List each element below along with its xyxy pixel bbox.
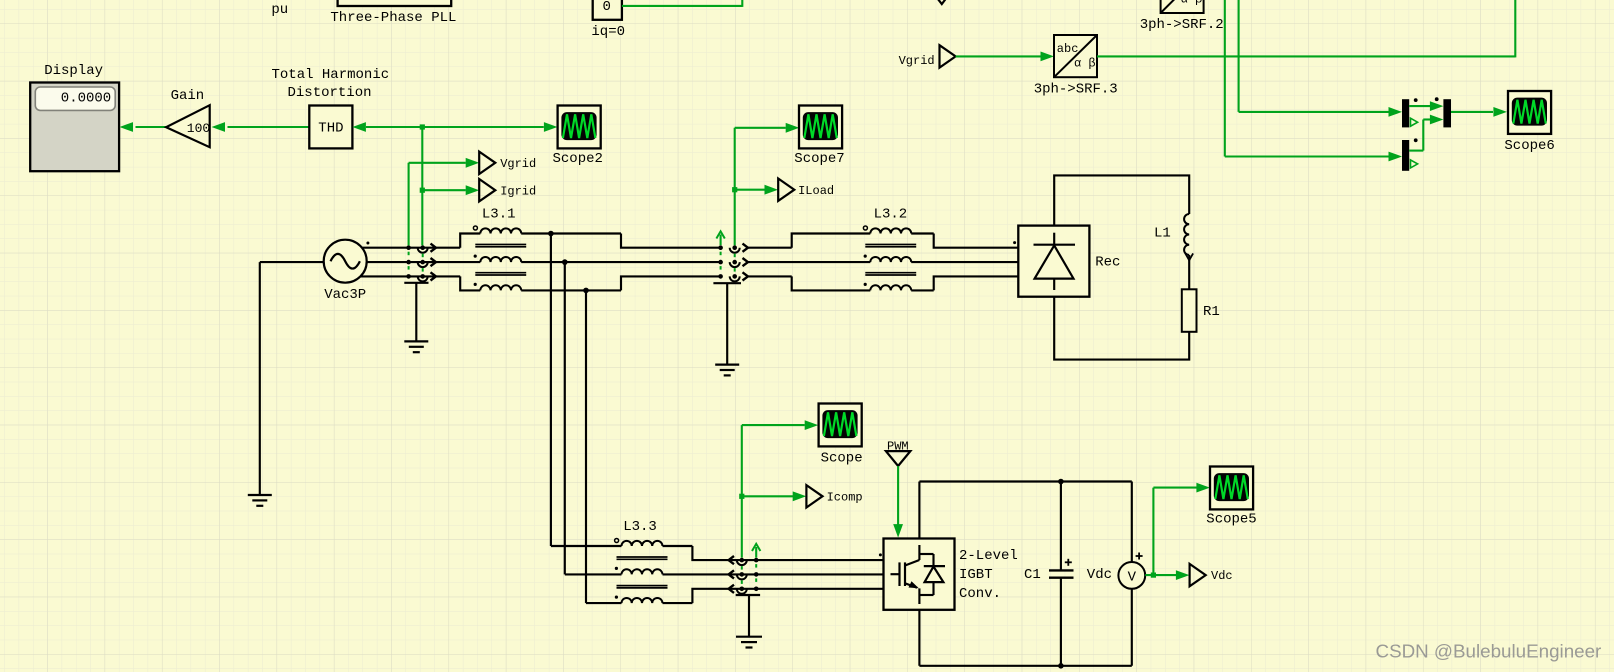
svg-text:CSDN @BulebuluEngineer: CSDN @BulebuluEngineer [1376,641,1602,662]
inductor L3.3 (three-phase) [615,519,668,603]
wire phase A: Vac3P to L3.1 [362,234,481,248]
wire L3.3 phase C to IGBT converter [663,589,884,603]
resistor R1 [1182,289,1220,332]
svg-text:iq=0: iq=0 [591,24,625,40]
svg-text:2-Level: 2-Level [959,548,1018,564]
wire Vac3P neutral to ground [260,262,324,495]
current sensors group 2 (x=734.7) [730,244,748,282]
mux M1 (upper-left bar) [1402,98,1418,127]
svg-text:R1: R1 [1203,304,1220,320]
wire junction to Igrid probe [424,185,479,195]
svg-text:V: V [1128,569,1137,585]
svg-text:L3.2: L3.2 [874,207,908,223]
wire phase B: sensors to L3.2 [748,261,870,263]
svg-text:Gain: Gain [171,88,205,104]
wire vertical from top edge to lower mux [1225,0,1402,161]
node DC+ / C1 [1058,479,1064,485]
probe PWM (link to converter gate) [886,440,911,467]
converter bottom pin [918,595,920,604]
display block Display (numeric readout 0.0000) [30,63,119,171]
wire dropper phase A to L3.3 [551,234,622,547]
wire junction up to Scope5 [1153,483,1210,575]
wire junction to THD [352,122,422,132]
probe Vgrid [479,152,536,174]
voltage taps group 1 (dots, x=408.6) [406,245,411,278]
wire phase A: L3.1 to sensor group 2 [521,234,721,248]
wire Gain to Display [120,122,167,132]
current sensors group 3 (x=741.8, arrows point left) [729,556,747,594]
wire mux M2 to Scope6 [1451,107,1507,117]
scope Scope2 [553,106,603,168]
svg-text:Vgrid: Vgrid [500,157,536,171]
wire dropper phase C to L3.3 [586,290,622,603]
svg-text:100: 100 [187,121,210,136]
wire Rec top to L1 [1054,175,1189,225]
wire phase C: L3.1 to sensor group 2 [521,276,721,290]
current sensors group 1 (x=422.7) [418,244,436,282]
svg-text:Vdc: Vdc [1087,567,1112,583]
svg-text:Vac3P: Vac3P [324,287,366,303]
svg-text:Icomp: Icomp [827,491,863,505]
block 3ph->SRF.3 (abc to alpha-beta) U3 [1034,35,1118,97]
scope Scope7 [794,106,844,168]
wire phase A: sensors to L3.2 [748,234,870,248]
probe Igrid [479,179,536,201]
svg-text:pu: pu [271,2,288,18]
scope Scope5 [1206,467,1256,528]
capacitor C1 [1024,482,1074,666]
svg-text:Rec: Rec [1095,255,1120,271]
wire L3.3 phase B to IGBT converter [663,573,884,575]
svg-text:Three-Phase PLL: Three-Phase PLL [330,10,456,26]
svg-text:Scope7: Scope7 [794,151,844,167]
svg-text:0: 0 [603,0,611,15]
wire phase B: Vac3P to L3.1 [367,261,481,263]
svg-text:Distortion: Distortion [288,85,372,101]
wire current sensor group 2 up to Scope7 [735,123,800,245]
wire dropper phase B to L3.3 [565,262,622,574]
wire L1 to R1 [1188,255,1190,289]
node DC- / C1 [1058,663,1064,669]
wire junction to ILoad probe [732,185,778,195]
svg-text:L3.1: L3.1 [482,207,516,223]
wire THD to Gain [212,122,310,132]
wire junction to Scope2 [420,122,558,132]
converter block 2-Level IGBT Conv. [879,539,1018,610]
wire THD junction down to Igrid and current sensors [420,127,425,245]
sensor reference bar + ground group 1 [404,283,428,352]
svg-text:Scope6: Scope6 [1504,138,1554,154]
wire phase B: L3.1 to sensor group 2 [521,261,721,263]
wire current sensor group 3 up to Scope [742,420,818,557]
mux M2 (right bar) [1435,97,1451,127]
node phase B tap [562,259,568,265]
svg-text:3ph->SRF.2: 3ph->SRF.2 [1140,17,1224,33]
wire from iq=0 block to top edge [622,0,742,7]
sensor reference bar + ground group 2 [713,283,741,375]
wire DC+ rail [919,482,1131,539]
svg-text:Scope2: Scope2 [553,151,603,167]
wire sensor column to Vgrid probe [409,158,480,246]
sensor reference bar + ground group 3 [736,595,762,648]
svg-text:α β: α β [1181,0,1203,6]
wire Vgrid to 3ph->SRF.3 [956,52,1054,62]
probe ILoad [778,179,834,201]
svg-text:ILoad: ILoad [798,184,834,198]
voltage taps group 3 (dots + up arrow stub) [752,544,760,591]
probe Vdc [1190,564,1233,586]
node phase C tap [583,288,589,294]
voltage taps group 2 (dots + up arrow stub) [716,231,724,278]
svg-text:Scope: Scope [821,451,863,467]
rectifier Rec (3-phase diode bridge block) [1013,226,1120,297]
probe PWM (partial triangle tip at top edge) [938,0,946,4]
wire phase C: Vac3P to L3.1 [360,276,480,290]
wire L3.3 phase A to IGBT converter [663,546,884,560]
ground (Vac3P neutral) [248,495,272,506]
svg-text:Total Harmonic: Total Harmonic [272,67,390,83]
scope Scope (bottom) [819,404,863,467]
svg-text:3ph->SRF.3: 3ph->SRF.3 [1034,81,1118,97]
wire phase C: sensors to L3.2 [748,276,870,290]
wire vertical from top edge to upper mux [1239,0,1402,117]
svg-text:Vdc: Vdc [1211,569,1233,583]
wire phase B: L3.2 to Rec [911,261,1018,263]
probe Vgrid (top right) [899,45,956,68]
svg-text:Conv.: Conv. [959,586,1001,602]
constant block iq=0 (value 0) [591,0,625,40]
wire mux M3 out to mux M2 [1409,115,1443,151]
svg-text:Igrid: Igrid [500,184,536,198]
svg-text:L1: L1 [1154,226,1171,242]
svg-text:C1: C1 [1024,567,1041,583]
wire phase C: L3.2 to Rec [911,276,1018,290]
inductor L3.2 (three-phase) [863,207,916,291]
svg-text:0.0000: 0.0000 [61,91,111,107]
wire phase A: L3.2 to Rec [911,234,1018,248]
svg-text:Display: Display [44,63,103,79]
watermark CSDN [1376,641,1602,662]
freewheeling diode inside converter [924,554,945,595]
block 3ph->SRF.2 (abc to alpha-beta, partial at top edge) [1140,0,1224,33]
wire mux M1 out to mux M2 [1409,101,1443,111]
inductor L1 [1154,214,1193,260]
svg-text:abc: abc [1057,42,1079,56]
probe Icomp [806,485,862,507]
source Vac3P (three-phase AC source) [324,240,370,303]
scope Scope6 [1504,91,1554,154]
label pu [271,2,288,18]
block THD (Total Harmonic Distortion) [272,67,390,148]
voltmeter Vdc [1087,482,1145,666]
svg-text:THD: THD [318,121,343,137]
IGBT symbol inside converter [891,545,934,595]
svg-text:Scope5: Scope5 [1206,512,1256,528]
node phase A tap [548,231,554,237]
wire DC- rail [919,610,1131,666]
wire PWM to converter [893,466,903,538]
svg-text:IGBT: IGBT [959,567,993,583]
svg-text:Vgrid: Vgrid [899,54,935,68]
svg-text:α β: α β [1074,57,1096,71]
wire 3ph->SRF.3 output to top edge [1097,0,1515,57]
subsystem Three-Phase PLL (partial box at top edge) [330,0,456,26]
wire voltmeter to Vdc probe [1145,570,1189,580]
wire junction to Icomp probe [739,491,806,501]
mux M3 (lower bar) [1402,138,1418,170]
gain block Gain (value 100) [166,88,210,147]
svg-text:L3.3: L3.3 [623,519,657,535]
wire R1 to Rec bottom [1054,297,1189,360]
inductor L3.1 (three-phase) [473,207,526,291]
